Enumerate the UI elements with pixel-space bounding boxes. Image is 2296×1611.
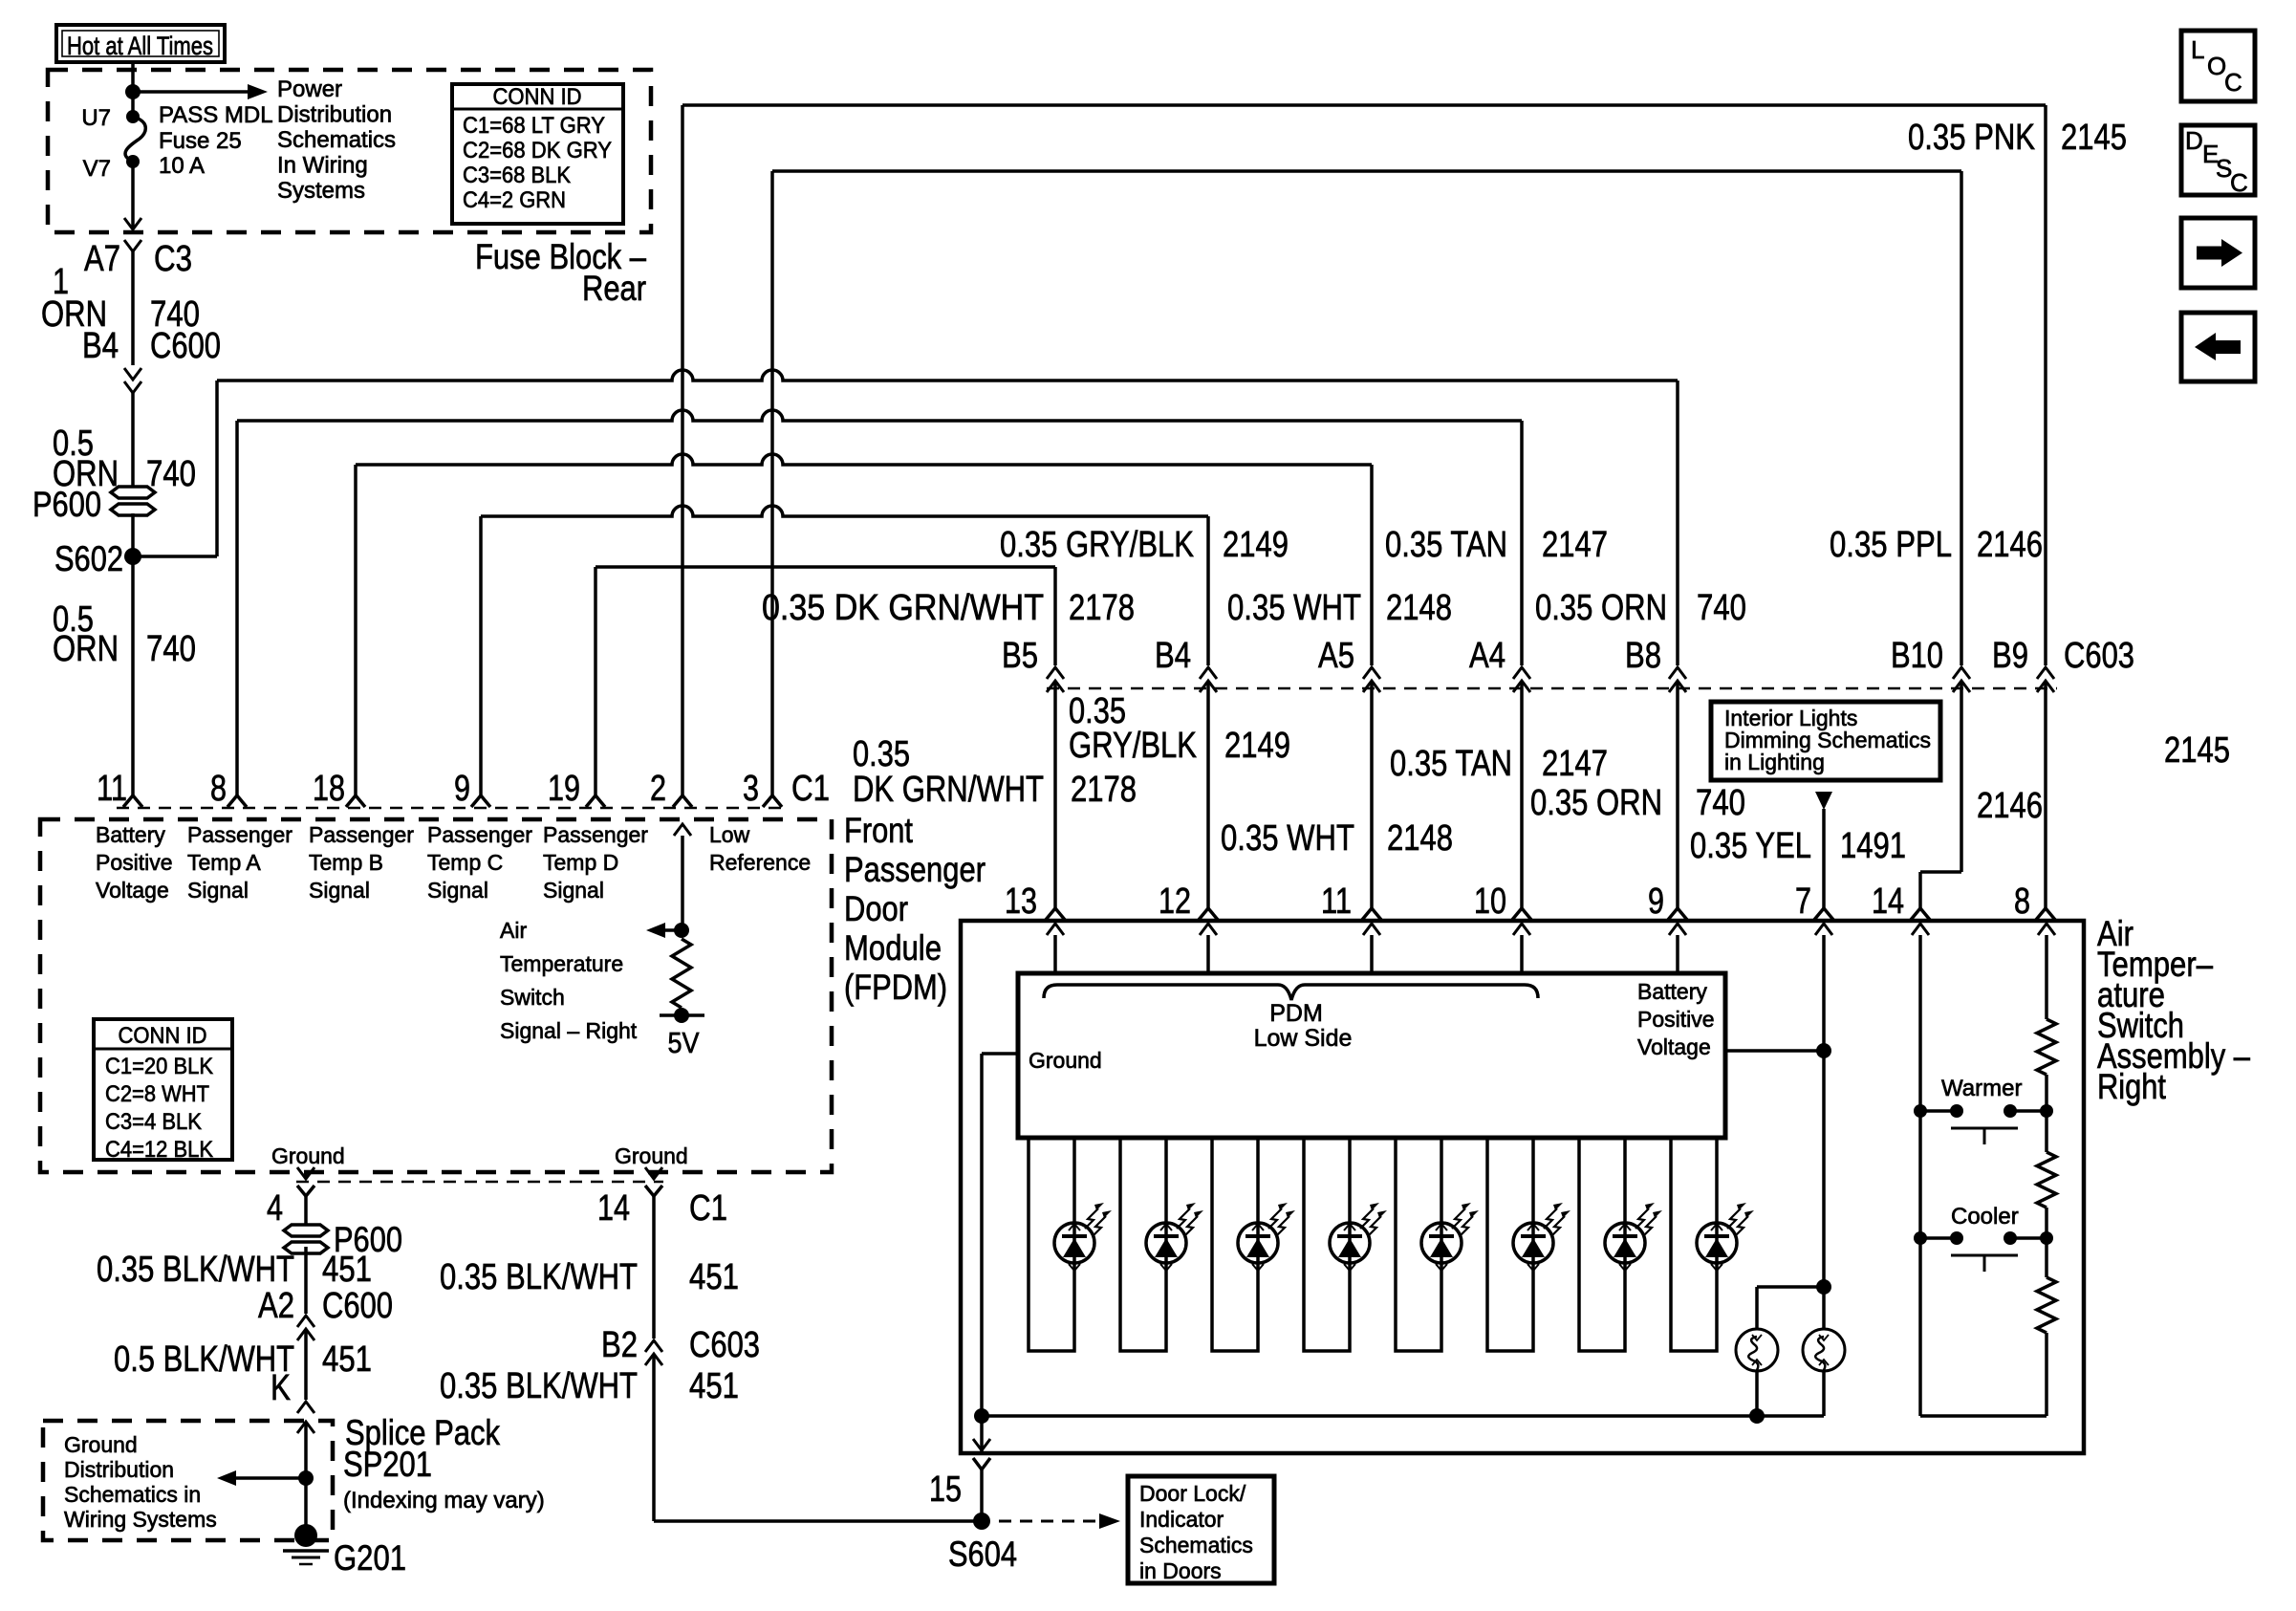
svg-text:Passenger: Passenger xyxy=(427,822,532,847)
svg-text:12: 12 xyxy=(1159,882,1191,922)
svg-text:9: 9 xyxy=(454,769,470,809)
svg-text:0.35 WHT: 0.35 WHT xyxy=(1227,588,1361,628)
node resistor top junction xyxy=(674,923,689,938)
svg-text:0.35 ORN: 0.35 ORN xyxy=(1530,783,1662,823)
svg-text:Positive: Positive xyxy=(1637,1007,1715,1032)
svg-text:Ground: Ground xyxy=(271,1143,345,1168)
svg-text:S602: S602 xyxy=(54,539,123,578)
svg-text:8: 8 xyxy=(2014,882,2030,922)
svg-text:Air: Air xyxy=(500,918,527,943)
wire A5 to module pin 11 xyxy=(1370,681,1374,908)
svg-text:C2=68 DK GRY: C2=68 DK GRY xyxy=(463,138,612,163)
arrow into splice pack SP201 xyxy=(297,1422,314,1433)
svg-text:0.35 PNK: 0.35 PNK xyxy=(1908,118,2035,158)
reference dashed box Ground Distribution Schematics in Wiring Systems xyxy=(43,1421,333,1540)
svg-text:1491: 1491 xyxy=(1840,826,1906,866)
svg-text:2146: 2146 xyxy=(1977,786,2043,826)
svg-text:8: 8 xyxy=(210,769,227,809)
svg-text:Door Lock/: Door Lock/ xyxy=(1139,1481,1246,1506)
LED D7 backlight loop xyxy=(1579,1138,1625,1351)
connector C603 chevrons xyxy=(1047,667,1064,679)
svg-text:C: C xyxy=(2224,68,2242,97)
svg-text:0.35 BLK/WHT: 0.35 BLK/WHT xyxy=(440,1366,638,1406)
arrow air temperature switch signal left xyxy=(665,928,682,932)
wire pin 8 inside module xyxy=(2045,935,2048,1019)
svg-text:Warmer: Warmer xyxy=(1941,1076,2022,1101)
svg-text:Temp A: Temp A xyxy=(187,850,261,875)
wire pin 14 switch leg xyxy=(1918,1111,1922,1416)
arrow from Interior Lights reference to pin 7 wire xyxy=(1815,792,1832,810)
svg-text:S604: S604 xyxy=(948,1535,1017,1574)
svg-text:CONN ID: CONN ID xyxy=(493,84,582,110)
svg-text:C600: C600 xyxy=(322,1286,393,1326)
wire fuse output to fuse block edge xyxy=(131,162,135,229)
wire B10 to module pin 14 xyxy=(1960,681,1963,872)
svg-text:B2: B2 xyxy=(601,1325,638,1365)
svg-text:C3=4 BLK: C3=4 BLK xyxy=(105,1109,202,1135)
svg-text:Module: Module xyxy=(844,928,942,968)
svg-text:2148: 2148 xyxy=(1387,818,1453,859)
svg-text:Temp C: Temp C xyxy=(427,850,503,875)
ground G201 xyxy=(294,1524,317,1547)
svg-text:3: 3 xyxy=(743,769,759,809)
svg-text:Signal – Right: Signal – Right xyxy=(500,1018,638,1043)
svg-text:Positive: Positive xyxy=(96,850,173,875)
splice S604 xyxy=(973,1513,990,1530)
svg-text:B4: B4 xyxy=(82,326,119,366)
connector C600 dashed line bottom xyxy=(296,1181,663,1184)
svg-text:451: 451 xyxy=(689,1257,739,1297)
wire ground down arrow to pin 15 xyxy=(973,1439,990,1450)
wire SP201 to ground xyxy=(304,1478,308,1530)
svg-text:ORN: ORN xyxy=(53,629,119,669)
lamp L1 ground wire xyxy=(1755,1371,1759,1416)
svg-text:0.35 GRY/BLK: 0.35 GRY/BLK xyxy=(1000,525,1194,565)
LED D5 backlight loop xyxy=(1396,1138,1441,1351)
connector C3 pin A7 xyxy=(124,240,141,251)
LED D8 xyxy=(1697,1203,1754,1271)
svg-text:D: D xyxy=(2185,126,2203,155)
svg-text:0.35 TAN: 0.35 TAN xyxy=(1385,525,1507,565)
svg-text:Signal: Signal xyxy=(187,878,249,903)
LED D4 xyxy=(1330,1203,1387,1271)
wire pin 19 riser to 0.35 DK GRN/WHT xyxy=(594,567,597,796)
svg-text:451: 451 xyxy=(322,1250,372,1290)
svg-text:Fuse 25: Fuse 25 xyxy=(159,128,242,154)
node SP201 junction xyxy=(298,1470,314,1486)
wire P600 to S602 xyxy=(131,513,135,556)
svg-text:C3=68 BLK: C3=68 BLK xyxy=(463,163,571,188)
wire label 0.35 BLK/WHT 451 pin4 xyxy=(304,1247,308,1314)
svg-text:DK GRN/WHT: DK GRN/WHT xyxy=(853,770,1044,810)
LED D5 xyxy=(1421,1203,1479,1271)
legend box arrow right xyxy=(2181,218,2255,288)
svg-text:U7: U7 xyxy=(81,105,111,131)
svg-text:Temp B: Temp B xyxy=(309,850,383,875)
lamp L2 feed wire xyxy=(1822,1287,1826,1329)
svg-text:0.35 DK GRN/WHT: 0.35 DK GRN/WHT xyxy=(762,588,1044,628)
svg-text:(Indexing may vary): (Indexing may vary) xyxy=(343,1488,545,1513)
grommet P600 ground xyxy=(284,1225,328,1236)
svg-text:PDM: PDM xyxy=(1269,1000,1323,1027)
LED D1 backlight loop xyxy=(1029,1138,1074,1351)
svg-text:2145: 2145 xyxy=(2164,730,2230,771)
svg-text:9: 9 xyxy=(1648,882,1664,922)
svg-text:14: 14 xyxy=(597,1188,630,1229)
wire A4 to module pin 10 xyxy=(1520,681,1524,908)
svg-text:0.35 BLK/WHT: 0.35 BLK/WHT xyxy=(440,1257,638,1297)
svg-text:Passenger: Passenger xyxy=(309,822,414,847)
resistor R2 air temp switch xyxy=(2037,1152,2056,1208)
svg-text:G201: G201 xyxy=(334,1538,406,1578)
wire B9 to module pin 8 xyxy=(2044,681,2047,908)
svg-text:Right: Right xyxy=(2097,1067,2167,1106)
svg-text:Battery: Battery xyxy=(96,822,165,847)
svg-text:Front: Front xyxy=(844,811,914,850)
legend box LOC xyxy=(2181,31,2255,101)
wire pin 14 inside module xyxy=(1918,935,1922,1111)
svg-text:11: 11 xyxy=(1321,882,1352,922)
svg-text:(FPDM): (FPDM) xyxy=(844,968,947,1007)
svg-text:0.35 TAN: 0.35 TAN xyxy=(1390,744,1512,784)
svg-text:C4=2 GRN: C4=2 GRN xyxy=(463,187,566,213)
svg-text:Schematics: Schematics xyxy=(277,127,396,153)
lamp L1 xyxy=(1736,1329,1778,1371)
wire B8 to module pin 9 xyxy=(1676,681,1679,908)
svg-text:2149: 2149 xyxy=(1224,726,1290,766)
wire pin 9 riser to 0.35 GRY/BLK xyxy=(479,516,483,796)
svg-text:B9: B9 xyxy=(1992,636,2028,676)
svg-text:4: 4 xyxy=(267,1188,283,1229)
svg-text:7: 7 xyxy=(1795,882,1811,922)
connector C603 dashed line xyxy=(1047,687,2057,690)
svg-text:Low Side: Low Side xyxy=(1254,1025,1353,1052)
svg-text:C600: C600 xyxy=(150,326,221,366)
svg-text:0.35 PPL: 0.35 PPL xyxy=(1830,525,1952,565)
node junction at fuse feed xyxy=(125,84,141,99)
LED D2 backlight loop xyxy=(1120,1138,1166,1351)
svg-text:740: 740 xyxy=(146,454,196,494)
ground bus wire xyxy=(982,1414,1824,1418)
svg-text:740: 740 xyxy=(146,629,196,669)
wire pin 3 riser 0.35 PPL 2146 xyxy=(770,171,774,796)
wire PDM battery positive exit xyxy=(1725,1049,1824,1053)
svg-text:10: 10 xyxy=(1474,882,1506,922)
svg-text:Schematics: Schematics xyxy=(1139,1533,1253,1557)
svg-text:L: L xyxy=(2191,35,2204,64)
wire FPDM pin 4 to connector xyxy=(304,1172,308,1179)
svg-text:18: 18 xyxy=(313,769,345,809)
svg-text:C2=8 WHT: C2=8 WHT xyxy=(105,1081,209,1107)
svg-text:Signal: Signal xyxy=(543,878,604,903)
node pin7 battery junction xyxy=(1816,1043,1831,1058)
grommet P600 left xyxy=(111,487,155,498)
svg-text:Battery: Battery xyxy=(1637,979,1707,1004)
svg-text:K: K xyxy=(271,1368,291,1408)
svg-text:Power: Power xyxy=(277,76,342,102)
wire FPDM pin 14 ground to C603 B2 xyxy=(652,1172,656,1179)
svg-text:Distribution: Distribution xyxy=(277,102,392,128)
svg-text:Ground: Ground xyxy=(64,1432,138,1457)
svg-text:15: 15 xyxy=(929,1469,962,1510)
svg-text:Distribution: Distribution xyxy=(64,1457,174,1482)
connector table CONN ID fuse block xyxy=(452,84,623,224)
LED D3 backlight loop xyxy=(1212,1138,1258,1351)
svg-text:0.35 YEL: 0.35 YEL xyxy=(1690,826,1811,866)
wire 0.35 YEL 1491 to module pin 7 xyxy=(1822,809,1826,908)
wire pin 7 battery feed inside module xyxy=(1822,935,1826,1051)
svg-text:740: 740 xyxy=(1696,783,1745,823)
wire S602 branch to ORN feed xyxy=(133,555,217,558)
svg-text:451: 451 xyxy=(689,1366,739,1406)
wire arrow to Power Distribution Schematics xyxy=(133,90,248,94)
svg-text:14: 14 xyxy=(1872,882,1904,922)
svg-text:Wiring Systems: Wiring Systems xyxy=(64,1507,217,1532)
svg-text:A5: A5 xyxy=(1318,636,1354,676)
svg-text:P600: P600 xyxy=(32,485,101,524)
arrow ground distribution schematics left xyxy=(236,1476,306,1480)
svg-text:B4: B4 xyxy=(1155,636,1191,676)
module internal pin arrows into PDM xyxy=(1053,935,1057,973)
svg-text:11: 11 xyxy=(97,769,127,809)
wire S602 down to pin 11 xyxy=(131,556,135,796)
svg-text:451: 451 xyxy=(322,1339,372,1380)
svg-text:B10: B10 xyxy=(1891,636,1943,676)
lamp L2 ground wire xyxy=(1822,1371,1826,1416)
svg-text:10 A: 10 A xyxy=(159,153,205,179)
svg-text:C1: C1 xyxy=(791,769,830,809)
module box Air Temperature Switch Assembly - Right xyxy=(961,921,2084,1453)
svg-text:740: 740 xyxy=(1697,588,1746,628)
svg-text:A4: A4 xyxy=(1469,636,1505,676)
wire 0.35 ORN 740 feed to B8 xyxy=(217,370,1678,381)
LED D3 xyxy=(1238,1203,1295,1271)
svg-text:Voltage: Voltage xyxy=(1637,1034,1711,1059)
svg-text:A2: A2 xyxy=(258,1286,294,1326)
svg-text:2178: 2178 xyxy=(1071,770,1137,810)
svg-text:Cooler: Cooler xyxy=(1951,1204,2019,1230)
svg-text:Passenger: Passenger xyxy=(844,850,986,889)
svg-text:PASS MDL: PASS MDL xyxy=(159,102,273,128)
svg-text:V7: V7 xyxy=(83,156,111,182)
svg-text:Temperature: Temperature xyxy=(500,951,623,976)
svg-text:C1: C1 xyxy=(689,1188,727,1229)
LED D1 xyxy=(1054,1203,1112,1271)
wire pin 8 resistor leg xyxy=(2045,1075,2048,1152)
svg-text:2149: 2149 xyxy=(1223,525,1289,565)
brace PDM low side pins xyxy=(1044,985,1538,1000)
svg-text:GRY/BLK: GRY/BLK xyxy=(1069,726,1197,766)
wire B5 to module pin 13 xyxy=(1053,681,1057,908)
LED D4 backlight loop xyxy=(1304,1138,1350,1351)
svg-text:Systems: Systems xyxy=(277,178,365,204)
svg-text:C4=12 BLK: C4=12 BLK xyxy=(105,1137,213,1163)
svg-text:Hot at All Times: Hot at All Times xyxy=(67,32,213,60)
svg-text:C1=20 BLK: C1=20 BLK xyxy=(105,1054,213,1079)
node lamp feed junction xyxy=(1816,1279,1831,1295)
svg-text:Switch: Switch xyxy=(500,985,565,1010)
LED D8 backlight loop xyxy=(1671,1138,1717,1351)
svg-text:C603: C603 xyxy=(689,1325,760,1365)
svg-text:2146: 2146 xyxy=(1977,525,2043,565)
module dashed box Front Passenger Door Module FPDM xyxy=(40,819,832,1172)
svg-text:Low: Low xyxy=(709,822,750,847)
svg-text:2178: 2178 xyxy=(1069,588,1135,628)
connector table CONN ID FPDM xyxy=(94,1019,232,1160)
svg-text:CONN ID: CONN ID xyxy=(119,1023,207,1049)
wire pin 2 riser 0.35 PNK 2145 xyxy=(681,105,684,796)
svg-text:0.5 BLK/WHT: 0.5 BLK/WHT xyxy=(114,1339,294,1380)
svg-text:C1=68 LT GRY: C1=68 LT GRY xyxy=(463,113,605,139)
svg-text:B5: B5 xyxy=(1002,636,1038,676)
svg-text:C3: C3 xyxy=(154,239,192,279)
svg-text:Rear: Rear xyxy=(582,269,646,308)
svg-text:0.35 ORN: 0.35 ORN xyxy=(1535,588,1667,628)
wire to splice S604 xyxy=(654,1519,982,1523)
wire from Hot at All Times into fuse block xyxy=(131,62,135,92)
svg-text:SP201: SP201 xyxy=(343,1445,432,1484)
label box 'Hot at All Times' xyxy=(56,25,225,62)
dashed arrow to Door Lock reference xyxy=(999,1520,1099,1523)
svg-text:Temp D: Temp D xyxy=(543,850,618,875)
LED D7 xyxy=(1605,1203,1662,1271)
LED D6 xyxy=(1513,1203,1570,1271)
lamp L2 xyxy=(1803,1329,1845,1371)
svg-text:Schematics in: Schematics in xyxy=(64,1482,201,1507)
wire PDM ground exit xyxy=(982,1052,1018,1056)
svg-text:in Doors: in Doors xyxy=(1139,1558,1222,1583)
node 5V rail xyxy=(660,1013,704,1017)
svg-text:2148: 2148 xyxy=(1386,588,1452,628)
connector C1 FPDM dashed line xyxy=(117,807,790,810)
legend box DESC xyxy=(2181,125,2255,195)
resistor low reference pull-up inside FPDM xyxy=(672,939,691,1008)
wire B4 to module pin 12 xyxy=(1206,681,1210,908)
dashed box Fuse Block - Rear xyxy=(48,70,651,232)
LED D6 backlight loop xyxy=(1487,1138,1533,1351)
svg-text:Signal: Signal xyxy=(427,878,488,903)
svg-text:Voltage: Voltage xyxy=(96,878,169,903)
svg-text:Signal: Signal xyxy=(309,878,370,903)
reference box Interior Lights Dimming Schematics in Lighting xyxy=(1711,702,1940,780)
svg-text:C603: C603 xyxy=(2064,636,2134,676)
svg-text:In Wiring: In Wiring xyxy=(277,153,368,179)
LED D2 xyxy=(1146,1203,1203,1271)
wire pin 2 low reference inside FPDM xyxy=(681,836,684,930)
legend box arrow left xyxy=(2181,313,2255,381)
svg-text:2145: 2145 xyxy=(2061,118,2127,158)
wire pin 8 riser to 0.35 TAN xyxy=(235,421,239,796)
wire pin 18 riser to 0.35 WHT xyxy=(354,465,357,796)
wire switch assembly bottom return xyxy=(1920,1414,2047,1418)
svg-text:Door: Door xyxy=(844,889,908,928)
svg-text:0.35: 0.35 xyxy=(853,734,910,774)
svg-text:B8: B8 xyxy=(1625,636,1661,676)
node ground bus left junction xyxy=(974,1408,989,1424)
svg-text:13: 13 xyxy=(1005,882,1037,922)
svg-text:2147: 2147 xyxy=(1542,525,1608,565)
resistor R1 air temp switch xyxy=(2037,1019,2056,1075)
svg-text:5V: 5V xyxy=(668,1026,700,1059)
svg-text:0.35 BLK/WHT: 0.35 BLK/WHT xyxy=(97,1250,294,1290)
wire pin 15 to S604 xyxy=(973,1458,990,1469)
svg-text:19: 19 xyxy=(548,769,580,809)
svg-text:Ground: Ground xyxy=(1029,1048,1102,1073)
svg-text:in Lighting: in Lighting xyxy=(1724,750,1825,774)
svg-text:C: C xyxy=(2230,168,2248,197)
reference box Door Lock Indicator Schematics in Doors xyxy=(1128,1476,1274,1583)
resistor R3 air temp switch xyxy=(2037,1277,2056,1333)
svg-text:2147: 2147 xyxy=(1542,744,1608,784)
svg-text:Indicator: Indicator xyxy=(1139,1507,1224,1532)
PDM box low side driver xyxy=(1018,973,1725,1138)
svg-text:Passenger: Passenger xyxy=(187,822,292,847)
fuse F25 PASS MDL 10A xyxy=(126,110,140,123)
splice S602 xyxy=(124,548,141,565)
svg-text:Reference: Reference xyxy=(709,850,811,875)
svg-text:Ground: Ground xyxy=(615,1143,688,1168)
svg-text:A7: A7 xyxy=(84,239,120,279)
wire pin 7 down to lamps xyxy=(1822,1051,1826,1287)
svg-text:Passenger: Passenger xyxy=(543,822,648,847)
svg-text:0.35 WHT: 0.35 WHT xyxy=(1221,818,1354,859)
lamp L1 feed wire xyxy=(1757,1285,1824,1289)
node lamp L1 ground junction xyxy=(1749,1408,1765,1424)
svg-text:2: 2 xyxy=(650,769,666,809)
